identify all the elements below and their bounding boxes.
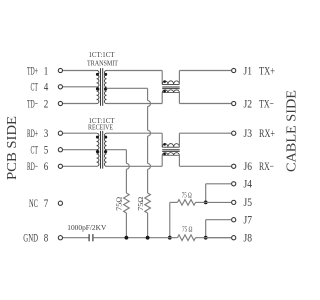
- svg-text:J8: J8: [244, 233, 253, 245]
- phase dot: [104, 136, 107, 139]
- phase dot: [96, 87, 99, 90]
- resistor 75ohm lower termination: [178, 235, 196, 241]
- wire TX+ to choke: [107, 70, 163, 72]
- svg-text:J6: J6: [244, 161, 253, 173]
- wire TX CT vertical: [147, 88, 149, 100]
- svg-text:GND: GND: [23, 233, 38, 245]
- choke L2 core: [162, 149, 180, 151]
- phase dot: [96, 136, 99, 139]
- svg-text:J2: J2: [244, 98, 253, 110]
- svg-text:CT: CT: [31, 145, 39, 157]
- wire: [63, 165, 97, 167]
- wire TX center tap: [107, 87, 148, 89]
- wire to J3: [179, 132, 231, 134]
- junction: [204, 236, 208, 240]
- wire: [63, 70, 97, 72]
- wire: [196, 201, 206, 203]
- svg-text:1CT:1CT: 1CT:1CT: [89, 52, 116, 59]
- junction: [204, 201, 208, 205]
- wire rail: [93, 237, 178, 239]
- wire hop: [148, 163, 151, 169]
- wire RX+ to choke: [107, 132, 163, 134]
- resistor 75ohm upper termination: [178, 200, 196, 206]
- wire: [161, 133, 163, 147]
- wire rail right: [196, 237, 232, 239]
- wire hop: [126, 163, 129, 169]
- svg-text:8: 8: [44, 233, 49, 245]
- svg-text:RD+: RD+: [27, 128, 38, 140]
- terminal J7: [232, 218, 236, 222]
- svg-text:J5: J5: [244, 197, 253, 209]
- svg-text:2: 2: [44, 98, 49, 110]
- svg-text:4: 4: [44, 82, 49, 94]
- svg-text:PCB SIDE: PCB SIDE: [5, 116, 20, 180]
- transformer T1 primary winding: [97, 71, 99, 104]
- wire J8: [206, 237, 231, 239]
- wire: [161, 155, 163, 166]
- svg-text:TX−: TX−: [259, 98, 274, 110]
- phase dot: [163, 90, 166, 93]
- wire to J6: [179, 165, 231, 167]
- wire: [178, 155, 180, 166]
- terminal J5: [232, 200, 236, 204]
- svg-text:RD−: RD−: [27, 161, 38, 173]
- svg-text:1000pF/2KV: 1000pF/2KV: [67, 223, 107, 232]
- resistor 75ohm RX termination: [124, 193, 130, 213]
- phase dot: [104, 73, 107, 76]
- resistor 75ohm TX termination: [145, 193, 151, 213]
- wire J4 branch: [206, 183, 231, 185]
- wire RX CT vertical: [125, 150, 127, 164]
- terminal J1: [232, 68, 236, 72]
- phase dot: [104, 150, 107, 153]
- svg-text:75Ω: 75Ω: [137, 197, 145, 211]
- wire: [169, 202, 171, 237]
- transformer T2 secondary winding: [104, 133, 106, 166]
- choke L1 top winding: [162, 81, 179, 85]
- wire: [63, 86, 97, 88]
- wire: [161, 71, 163, 85]
- wire RX center tap: [107, 149, 127, 151]
- wire hop: [148, 130, 151, 136]
- wire: [63, 132, 97, 134]
- svg-text:J4: J4: [244, 179, 253, 191]
- terminal J2: [232, 101, 236, 105]
- svg-text:6: 6: [44, 161, 49, 173]
- wire: [63, 103, 97, 105]
- svg-text:75 Ω: 75 Ω: [182, 226, 193, 233]
- junction: [168, 236, 172, 240]
- transformer T2 core: [100, 131, 102, 169]
- wire to J1: [179, 70, 231, 72]
- wire: [178, 133, 180, 147]
- wire to J2: [179, 103, 231, 105]
- terminal J8: [232, 236, 236, 240]
- wire hop: [148, 101, 151, 107]
- svg-text:J3: J3: [244, 128, 253, 140]
- phase dot: [163, 80, 166, 83]
- svg-text:RX+: RX+: [259, 128, 275, 140]
- wire J5: [206, 201, 231, 203]
- svg-text:75 Ω: 75 Ω: [182, 193, 192, 200]
- wire: [63, 149, 97, 151]
- terminal J3: [232, 131, 236, 135]
- choke L2 bottom winding: [162, 153, 179, 156]
- choke L2 top winding: [162, 144, 179, 148]
- svg-text:CABLE SIDE: CABLE SIDE: [285, 90, 300, 172]
- svg-text:5: 5: [44, 145, 49, 157]
- phase dot: [104, 87, 107, 90]
- svg-text:75Ω: 75Ω: [116, 197, 124, 211]
- transformer T2 primary winding: [97, 133, 99, 166]
- svg-text:NC: NC: [29, 198, 38, 210]
- svg-text:TRANSMIT: TRANSMIT: [87, 61, 119, 68]
- svg-text:TX+: TX+: [259, 65, 275, 77]
- svg-text:J1: J1: [244, 65, 253, 77]
- phase dot: [96, 73, 99, 76]
- phase dot: [163, 143, 166, 146]
- choke L1 bottom winding: [162, 90, 179, 93]
- wire GND to cap: [63, 237, 89, 239]
- svg-text:3: 3: [44, 128, 49, 140]
- wire RX- to choke: [107, 165, 163, 167]
- junction: [146, 236, 150, 240]
- wire J7 branch: [206, 219, 231, 221]
- transformer T1 secondary winding: [105, 71, 107, 104]
- wire: [178, 71, 180, 85]
- svg-text:TD+: TD+: [27, 65, 38, 77]
- svg-text:J7: J7: [244, 215, 253, 227]
- svg-text:RX−: RX−: [259, 161, 274, 173]
- capacitor 1000pF/2KV: [88, 234, 90, 241]
- svg-text:RECEIVE: RECEIVE: [88, 125, 113, 132]
- transformer T1 core: [100, 68, 102, 106]
- junction: [125, 236, 129, 240]
- phase dot: [163, 153, 166, 156]
- phase dot: [96, 150, 99, 153]
- wire: [170, 201, 178, 203]
- svg-text:7: 7: [44, 198, 49, 210]
- choke L1 core: [162, 86, 180, 88]
- wire TX- to choke: [107, 103, 163, 105]
- svg-text:CT: CT: [31, 82, 39, 94]
- svg-text:TD−: TD−: [27, 98, 38, 110]
- wire: [161, 93, 163, 104]
- terminal J4: [232, 182, 236, 186]
- svg-text:1: 1: [44, 65, 49, 77]
- wire: [178, 93, 180, 104]
- terminal J6: [232, 164, 236, 168]
